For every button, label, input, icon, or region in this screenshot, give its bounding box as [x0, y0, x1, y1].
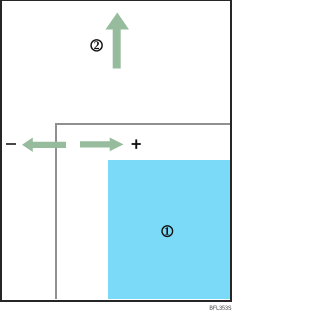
right arrow	[80, 137, 124, 152]
figure code caption	[205, 302, 233, 312]
horizontal guide line	[55, 123, 230, 124]
figure frame	[0, 0, 232, 302]
vertical guide line	[55, 123, 56, 299]
highlighted area (cyan region)	[108, 160, 230, 300]
minus sign	[6, 143, 16, 145]
plus sign	[130, 138, 142, 150]
up arrow (direction 2)	[104, 12, 132, 70]
label 1 (circled)	[161, 225, 174, 238]
left arrow	[21, 137, 67, 153]
label 2 (circled)	[90, 39, 104, 53]
